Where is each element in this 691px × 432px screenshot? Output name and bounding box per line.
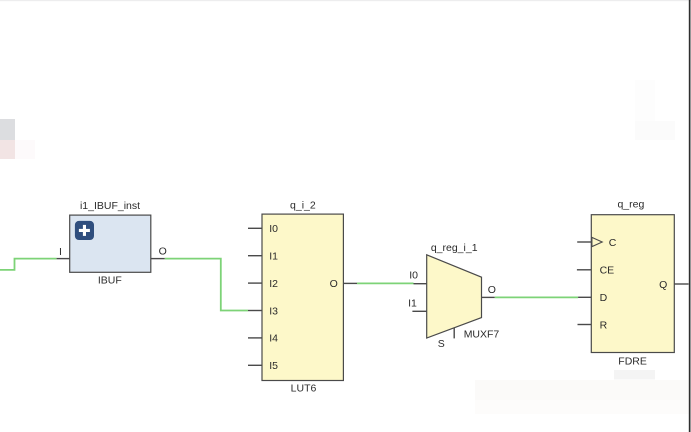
svg-text:R: R <box>600 319 608 331</box>
faint patch top right <box>635 80 655 140</box>
MUXF7 pin I0 stub <box>414 283 427 285</box>
svg-text:i1_IBUF_inst: i1_IBUF_inst <box>80 200 140 212</box>
buffer U1 IBUF body <box>70 215 151 272</box>
flip-flop U4 FDRE body <box>591 215 674 353</box>
FDRE pin CE stub <box>577 269 591 271</box>
svg-text:I5: I5 <box>269 360 278 372</box>
svg-text:O: O <box>488 284 496 296</box>
MUXF7 pin O stub <box>482 296 495 298</box>
LUT6 pin I4 stub <box>248 337 262 339</box>
LUT6 pin O stub <box>343 282 357 284</box>
LUT U2 body <box>262 214 343 380</box>
wire: input net to IBUF I <box>0 259 57 270</box>
svg-text:I0: I0 <box>269 223 278 235</box>
LUT6 pin I5 stub <box>248 364 262 366</box>
wire: IBUF O to LUT6 I3 <box>165 259 248 311</box>
svg-text:C: C <box>609 237 617 249</box>
svg-text:I1: I1 <box>408 298 417 310</box>
IBUF expand plus icon <box>75 221 94 240</box>
LUT6 pin I1 stub <box>248 255 262 257</box>
right window border <box>689 0 691 432</box>
svg-text:O: O <box>159 246 167 258</box>
left pink artifact block <box>0 140 15 159</box>
svg-text:LUT6: LUT6 <box>291 382 317 394</box>
faint rect under FDRE label <box>614 370 655 380</box>
svg-text:I: I <box>59 246 62 258</box>
MUXF7 pin I1 stub <box>412 310 426 312</box>
svg-text:O: O <box>330 278 338 290</box>
wire: MUXF7 O to FDRE D <box>495 296 578 298</box>
svg-text:FDRE: FDRE <box>618 355 647 367</box>
FDRE pin C stub <box>577 241 591 243</box>
svg-text:I4: I4 <box>269 333 278 345</box>
svg-text:q_i_2: q_i_2 <box>290 199 316 211</box>
FDRE pin Q stub <box>674 283 688 285</box>
LUT6 pin I3 stub <box>248 310 262 312</box>
FDRE clock chevron <box>592 237 602 246</box>
svg-text:D: D <box>600 292 608 304</box>
svg-text:I3: I3 <box>269 305 278 317</box>
FDRE pin D stub <box>578 296 591 298</box>
svg-text:S: S <box>438 338 445 350</box>
left gray artifact block <box>0 119 15 140</box>
svg-text:I2: I2 <box>269 278 278 290</box>
IBUF pin O stub <box>151 258 165 260</box>
left light-pink artifact block <box>15 140 35 159</box>
svg-text:I1: I1 <box>269 251 278 263</box>
svg-text:q_reg_i_1: q_reg_i_1 <box>431 242 478 254</box>
IBUF pin I stub <box>57 258 70 260</box>
faint bottom band <box>475 380 689 400</box>
FDRE pin R stub <box>578 324 592 326</box>
wire: LUT6 O to MUXF7 I0 <box>357 282 414 284</box>
svg-text:I0: I0 <box>409 269 418 281</box>
svg-text:IBUF: IBUF <box>98 274 122 286</box>
MUXF7 pin S stub <box>453 328 455 339</box>
top window border line <box>0 0 691 1</box>
svg-text:Q: Q <box>659 279 667 291</box>
LUT6 pin I0 stub <box>248 227 262 229</box>
svg-text:MUXF7: MUXF7 <box>464 329 500 341</box>
LUT6 pin I2 stub <box>248 282 262 284</box>
svg-text:q_reg: q_reg <box>617 199 644 211</box>
svg-text:CE: CE <box>600 265 615 277</box>
mux U3 MUXF7 body <box>427 255 482 338</box>
